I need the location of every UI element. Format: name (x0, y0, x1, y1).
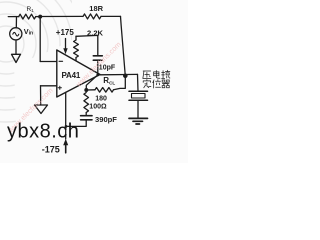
voltage source Vin (10, 28, 22, 40)
label R1 (27, 6, 35, 13)
wire: compensation rail (76, 35, 98, 55)
char dian (electric) (154, 70, 160, 78)
svg-text:390pF: 390pF (95, 115, 117, 124)
label +175 (56, 28, 75, 37)
svg-text:ybx8.ch: ybx8.ch (7, 121, 79, 143)
label PA41 (62, 71, 81, 80)
svg-text:RCL: RCL (103, 76, 115, 85)
wire: inverting input vertical (39, 17, 41, 62)
wire: output to snubber node (slant) (86, 76, 96, 88)
node B: feedback/output junction dot (123, 74, 128, 79)
wire: inverting input horizontal (40, 61, 57, 63)
wire: output rail down to piezo (137, 74, 140, 91)
char ding (fix) (143, 80, 151, 88)
char wei (position) (153, 80, 161, 88)
svg-text:100Ω: 100Ω (89, 103, 107, 110)
wire: input stub left (8, 16, 18, 18)
capacitor CC 10pF (93, 56, 102, 60)
wire: source bottom to ground (15, 41, 17, 55)
label 100 ohm (89, 103, 107, 110)
pin marker: non-inverting input plus (58, 86, 61, 89)
char jing (mirror) (162, 70, 170, 78)
svg-text:R1: R1 (27, 6, 35, 13)
wire: piezo to ground (137, 100, 139, 117)
node C: snubber junction dot (84, 88, 88, 92)
label: piezo mirror positioner (hand-drawn CJK) (143, 70, 170, 88)
pin marker: inverting input minus (59, 60, 63, 62)
wire: RCL right end up to output node (114, 78, 126, 90)
+175 supply arrow (63, 39, 67, 55)
node: snubber return junction (65, 125, 68, 128)
-175 supply arrow (63, 139, 68, 153)
resistor R1 (input) (19, 14, 36, 19)
label -175 (42, 144, 60, 154)
node: 10pF output junction (96, 73, 99, 76)
wire: 10pF to output rail (97, 60, 99, 74)
capacitor 390pF (81, 116, 92, 120)
wire: snubber node to RCL (86, 89, 95, 91)
wire: summing node to 18R (40, 15, 83, 17)
char ya (press) (143, 71, 151, 78)
op-amp U1 PA41 (57, 50, 100, 97)
node A: summing junction dot (38, 15, 42, 19)
wire: 18R to feedback corner (101, 15, 121, 17)
resistor RF 18R (83, 14, 101, 19)
svg-text:-175: -175 (42, 144, 60, 154)
char qi (device) (162, 80, 169, 88)
wire: output rail (100, 73, 138, 75)
wire: 100 ohm to 390pF (85, 113, 87, 116)
svg-text:2.2K: 2.2K (87, 28, 104, 37)
label 18R (89, 4, 103, 13)
wire: Vin vertical from corner to source (15, 17, 17, 28)
svg-text:18R: 18R (89, 4, 103, 13)
resistor RCL 180 (95, 88, 114, 93)
wire: R1 to summing node (36, 16, 41, 18)
label 2.2K (87, 28, 104, 37)
label 10pF (99, 64, 116, 71)
label Vin (24, 27, 33, 37)
wire: 390pF return to -V rail (66, 120, 86, 127)
resistor RC 2.2K (compensation) (74, 36, 79, 60)
ground (non-inverting input) (35, 105, 48, 114)
ground (under Vin) (12, 54, 21, 62)
wire: non-inverting input horizontal (41, 85, 57, 87)
svg-text:180: 180 (95, 95, 107, 102)
wire: feedback vertical down to output node (121, 16, 126, 76)
wire: non-inverting input down to ground (40, 86, 42, 105)
svg-text:+175: +175 (56, 28, 75, 37)
ground (piezo, earth style) (129, 118, 148, 124)
label RCL (103, 76, 115, 85)
piezo transducer element (129, 91, 148, 100)
label 180 (95, 95, 107, 102)
wire: negative supply vertical (65, 92, 67, 139)
label 390pF (95, 115, 117, 124)
resistor 100 ohm (snubber) (84, 93, 89, 113)
